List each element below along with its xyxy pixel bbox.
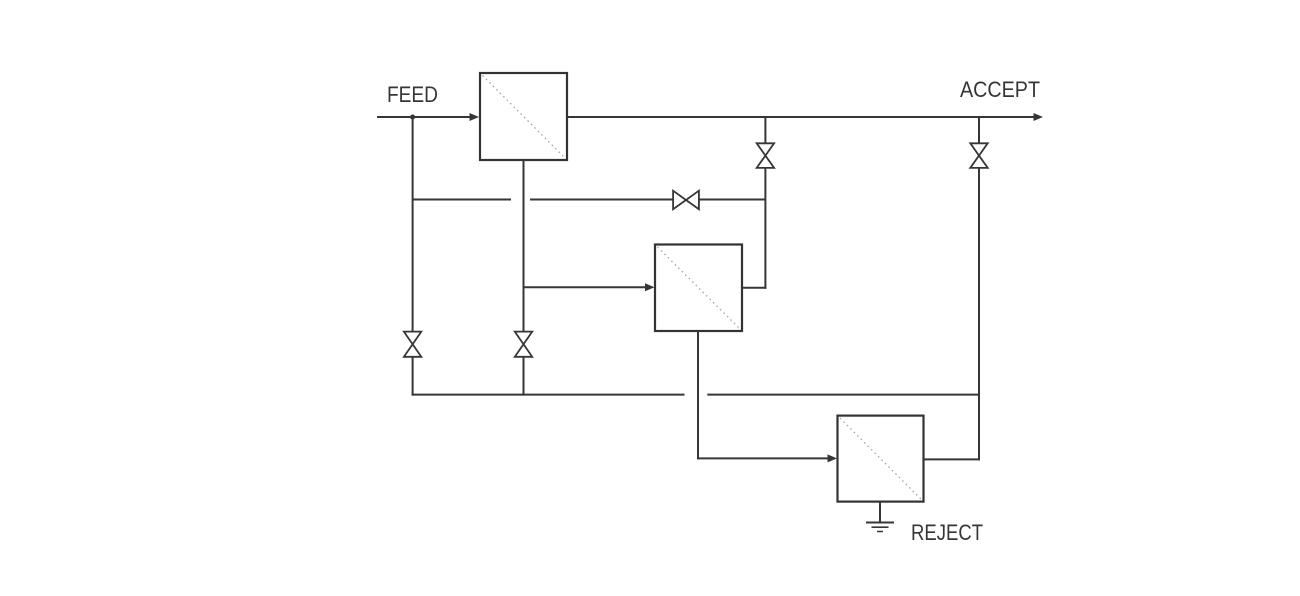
wire: accept-line branch upper (vertical at x=765.4) (764, 117, 766, 144)
node: feed tee junction (410, 115, 415, 120)
ground (866, 523, 894, 532)
wire: accept header (567, 116, 1036, 118)
wire: recirculation line middle segment (530, 199, 674, 201)
arrow: accept outlet (1034, 113, 1044, 121)
svg-text:REJECT: REJECT (911, 520, 983, 545)
wire: S2 underflow drop (vertical at x=698) (697, 331, 699, 459)
wire: bypass header left segment (y=394.6) (412, 394, 685, 396)
wire: S1 underflow drop lower (523, 356, 525, 396)
wire: reject riser lower (978, 167, 980, 460)
arrow into screen S1 (470, 113, 480, 121)
screen S1 (480, 73, 567, 160)
wire: feed inlet line (377, 116, 474, 118)
wire: S1 underflow drop (vertical at x=523.5) (523, 160, 525, 333)
valve V1 (S2 accept branch) (757, 143, 774, 168)
wire: feed bypass drop (vertical at x=412) (412, 117, 414, 333)
wire: recirculation line left segment (413, 199, 511, 201)
valve V2 (reject riser) (970, 143, 987, 168)
screen S1 dotted diagonal (483, 76, 565, 158)
wire: S2 outlet to branch (742, 287, 766, 289)
svg-text:FEED: FEED (387, 82, 438, 107)
arrow into screen S3 (828, 454, 838, 462)
arrow into screen S2 (645, 283, 655, 291)
screen S2 (655, 245, 742, 332)
wire: S2 feed elbow horizontal (523, 286, 650, 288)
svg-text:ACCEPT: ACCEPT (960, 77, 1040, 102)
valve V5 (S1 underflow) (515, 332, 532, 357)
wire: recirculation line right segment (698, 199, 765, 201)
valve V3 (recirculation, bowtie) (673, 191, 699, 210)
screen S3 (838, 416, 924, 502)
wire: bypass header right segment (707, 394, 979, 396)
wire: feed bypass drop lower (412, 356, 414, 396)
wire: accept-line branch lower (764, 167, 766, 289)
ground stem (879, 502, 881, 522)
screen S2 dotted diagonal (658, 247, 740, 329)
valve V4 (feed bypass) (404, 332, 421, 357)
wire: S3 feed horizontal (697, 457, 831, 459)
screen S3 dotted diagonal (840, 418, 921, 499)
wire: reject riser upper (vertical at x=979) (978, 117, 980, 144)
wire: S3 outlet to riser (924, 458, 981, 460)
